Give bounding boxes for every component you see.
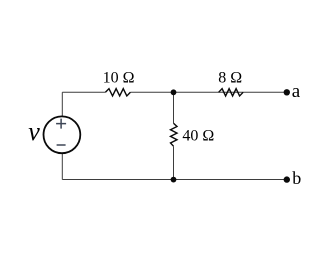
svg-text:b: b [292,168,301,188]
svg-text:v: v [28,117,40,146]
svg-text:a: a [292,81,301,102]
svg-text:8 Ω: 8 Ω [218,70,242,87]
svg-text:40 Ω: 40 Ω [182,127,214,144]
svg-text:10 Ω: 10 Ω [103,70,135,87]
